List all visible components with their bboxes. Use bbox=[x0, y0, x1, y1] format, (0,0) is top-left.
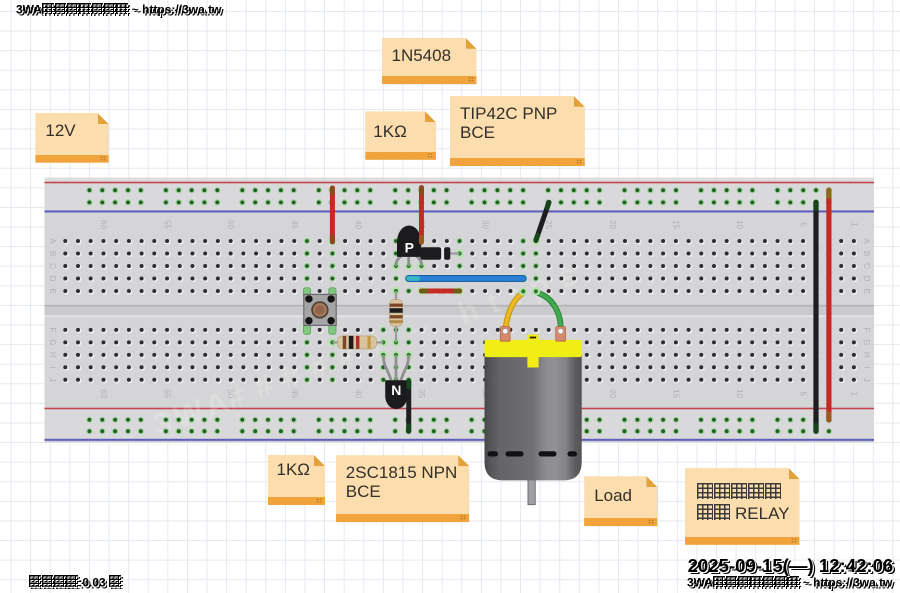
svg-text:50: 50 bbox=[226, 389, 235, 398]
svg-text:5: 5 bbox=[799, 222, 808, 227]
svg-text:A: A bbox=[862, 238, 871, 244]
svg-text:1: 1 bbox=[849, 222, 858, 227]
svg-text:15: 15 bbox=[671, 389, 680, 398]
svg-text:N: N bbox=[391, 382, 401, 398]
svg-text:55: 55 bbox=[163, 220, 172, 229]
svg-text:20: 20 bbox=[608, 389, 617, 398]
svg-text:20: 20 bbox=[608, 220, 617, 229]
svg-text:D: D bbox=[48, 276, 57, 282]
svg-text:10: 10 bbox=[735, 220, 744, 229]
svg-text:55: 55 bbox=[163, 389, 172, 398]
svg-text:30: 30 bbox=[481, 220, 490, 229]
svg-text:J: J bbox=[862, 378, 871, 382]
svg-text:E: E bbox=[862, 288, 871, 293]
svg-text:B: B bbox=[48, 251, 57, 256]
svg-text:45: 45 bbox=[290, 220, 299, 229]
svg-text:H: H bbox=[862, 352, 871, 358]
svg-text:B: B bbox=[862, 251, 871, 256]
svg-text:40: 40 bbox=[353, 389, 362, 398]
svg-text:G: G bbox=[862, 339, 871, 345]
svg-text:H: H bbox=[48, 352, 57, 358]
svg-text:C: C bbox=[862, 263, 871, 269]
svg-text:10: 10 bbox=[735, 389, 744, 398]
svg-text:15: 15 bbox=[671, 220, 680, 229]
svg-text:D: D bbox=[862, 276, 871, 282]
svg-text:40: 40 bbox=[353, 220, 362, 229]
svg-text:J: J bbox=[48, 378, 57, 382]
svg-text:F: F bbox=[862, 327, 871, 332]
svg-text:I: I bbox=[862, 366, 871, 368]
svg-text:45: 45 bbox=[290, 389, 299, 398]
svg-text:G: G bbox=[48, 339, 57, 345]
svg-text:60: 60 bbox=[99, 389, 108, 398]
svg-text:35: 35 bbox=[417, 389, 426, 398]
svg-text:P: P bbox=[405, 239, 414, 255]
svg-text:25: 25 bbox=[544, 220, 553, 229]
svg-text:1: 1 bbox=[849, 391, 858, 396]
svg-text:C: C bbox=[48, 263, 57, 269]
svg-text:5: 5 bbox=[799, 391, 808, 396]
svg-text:A: A bbox=[48, 238, 57, 244]
svg-text:60: 60 bbox=[99, 220, 108, 229]
svg-text:50: 50 bbox=[226, 220, 235, 229]
svg-text:F: F bbox=[48, 327, 57, 332]
svg-text:E: E bbox=[48, 288, 57, 293]
svg-text:I: I bbox=[48, 366, 57, 368]
